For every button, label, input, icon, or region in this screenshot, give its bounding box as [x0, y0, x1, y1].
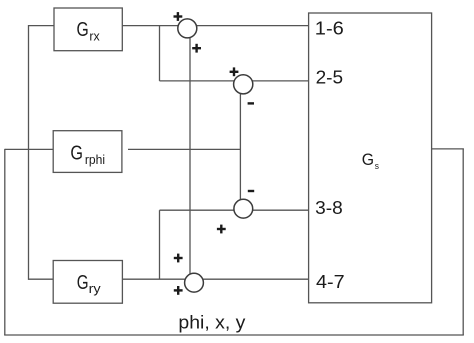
svg-text:s: s — [375, 161, 379, 172]
summer S4 — [185, 273, 204, 292]
wire: into summer S2 and on to Gs input 2-5 — [160, 80, 309, 82]
svg-text:rx: rx — [89, 29, 100, 44]
svg-text:1-6: 1-6 — [315, 19, 344, 39]
wire: G_rx input (left) — [29, 25, 55, 27]
wire: left coupling vertical x=28.5 — [28, 25, 30, 280]
wire: feedback right vertical — [462, 149, 464, 335]
sign + (S1 upper-left) — [174, 12, 183, 21]
wire: summer S1 down to summer S4 — [189, 28, 191, 278]
svg-text:G: G — [70, 142, 83, 164]
svg-text:4-7: 4-7 — [316, 272, 345, 292]
block G_ry — [53, 261, 122, 304]
wire: summer S2 down to summer S3 — [239, 84, 241, 205]
sign - (S2 lower-right) — [248, 102, 254, 104]
wire: G_ry output to summer S4 to Gs input 4-7 — [122, 278, 308, 280]
wire: branch down from node at x=159.5 to summer S2 level — [159, 26, 161, 81]
sign + (S4 below wire) — [174, 286, 183, 295]
sign + (S3 lower-left) — [217, 225, 226, 234]
block G_s — [309, 13, 432, 303]
wire: Gs output to the right — [432, 148, 464, 150]
block G_rx — [54, 8, 122, 51]
svg-text:2-5: 2-5 — [316, 68, 344, 88]
summer S1 — [178, 19, 197, 38]
svg-text:ry: ry — [89, 281, 102, 296]
sign + (S1 lower-right) — [192, 44, 201, 53]
wire: G_rphi output to node on S2-S3 line — [128, 148, 240, 150]
svg-text:G: G — [77, 19, 89, 41]
svg-text:rphi: rphi — [85, 152, 105, 167]
sign + (S4 above wire) — [174, 254, 183, 263]
wire: feedback left vertical — [4, 149, 6, 335]
sign - (S3 upper-right) — [248, 190, 254, 192]
wire: into summer S3 and on to Gs input 3-8 — [160, 209, 309, 211]
sign + (S2 upper-left) — [230, 67, 239, 76]
wire: G_rx output to summer S1 to Gs input 1-6 — [122, 25, 308, 27]
wire: feedback bottom horizontal (phi, x, y) — [4, 334, 464, 336]
wire: feedback into G_rphi input — [5, 148, 53, 150]
svg-text:phi, x, y: phi, x, y — [178, 312, 245, 332]
wire: G_ry input (left) — [29, 278, 54, 280]
svg-text:G: G — [77, 272, 89, 294]
block G_rphi — [53, 131, 122, 173]
wire: branch from bottom wire up to summer S3 — [159, 210, 161, 279]
svg-text:3-8: 3-8 — [315, 198, 343, 218]
summer S2 — [234, 75, 253, 94]
svg-text:G: G — [362, 150, 374, 169]
summer S3 — [234, 199, 253, 218]
